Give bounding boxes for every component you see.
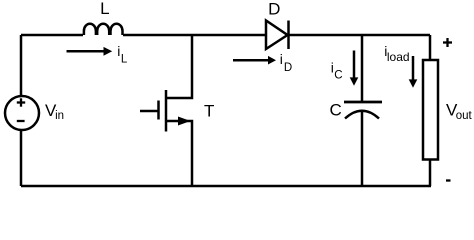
svg-text:D: D [284,62,292,74]
svg-text:C: C [330,100,342,119]
svg-text:D: D [268,0,280,19]
svg-text:out: out [456,110,473,122]
svg-text:C: C [334,70,342,82]
svg-text:in: in [55,110,64,122]
svg-text:load: load [387,50,410,64]
svg-text:i: i [280,51,283,67]
svg-text:L: L [121,53,128,65]
svg-text:L: L [100,0,109,18]
svg-text:T: T [204,101,214,120]
